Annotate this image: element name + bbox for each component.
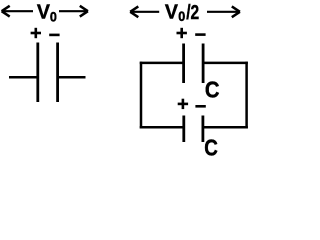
svg-text:/2: /2 <box>186 1 199 24</box>
capacitor C (bottom of loop) <box>184 116 203 143</box>
minus sign (bottom capacitor C) <box>195 105 205 108</box>
svg-text:0: 0 <box>178 9 185 24</box>
dimension arrow V0 left segment <box>2 6 33 17</box>
plus sign (top capacitor C) <box>177 28 187 38</box>
svg-text:V: V <box>37 1 50 24</box>
minus sign (left capacitor, top) <box>49 34 59 37</box>
dimension arrow V0 right segment <box>59 6 88 17</box>
bottom left plate <box>182 116 185 143</box>
svg-text:C: C <box>204 135 218 156</box>
bottom wire left of cap <box>140 126 183 129</box>
right wire <box>245 62 248 129</box>
top right plate <box>202 44 205 84</box>
bottom wire right of cap <box>204 126 248 129</box>
capacitor C (top of loop) <box>184 44 204 84</box>
right lead <box>58 76 85 79</box>
dimension arrow V0/2 left segment <box>130 6 159 17</box>
bottom right plate <box>201 116 204 143</box>
top left plate <box>182 44 185 84</box>
left wire <box>140 62 143 129</box>
capacitor (left, charged to V0) <box>9 43 86 103</box>
svg-text:0: 0 <box>50 9 57 24</box>
plus sign (left capacitor, top) <box>31 28 41 38</box>
svg-text:C: C <box>205 77 220 103</box>
top wire right of cap <box>204 62 248 65</box>
left lead <box>9 76 37 79</box>
right plate <box>56 43 59 103</box>
svg-text:V: V <box>165 0 178 23</box>
top wire left of cap <box>140 62 183 65</box>
minus sign (top capacitor C) <box>195 33 205 36</box>
left plate <box>36 43 39 103</box>
dimension arrow V0/2 right segment <box>207 6 240 17</box>
loop wiring box <box>140 62 248 129</box>
plus sign (bottom capacitor C) <box>178 99 188 109</box>
